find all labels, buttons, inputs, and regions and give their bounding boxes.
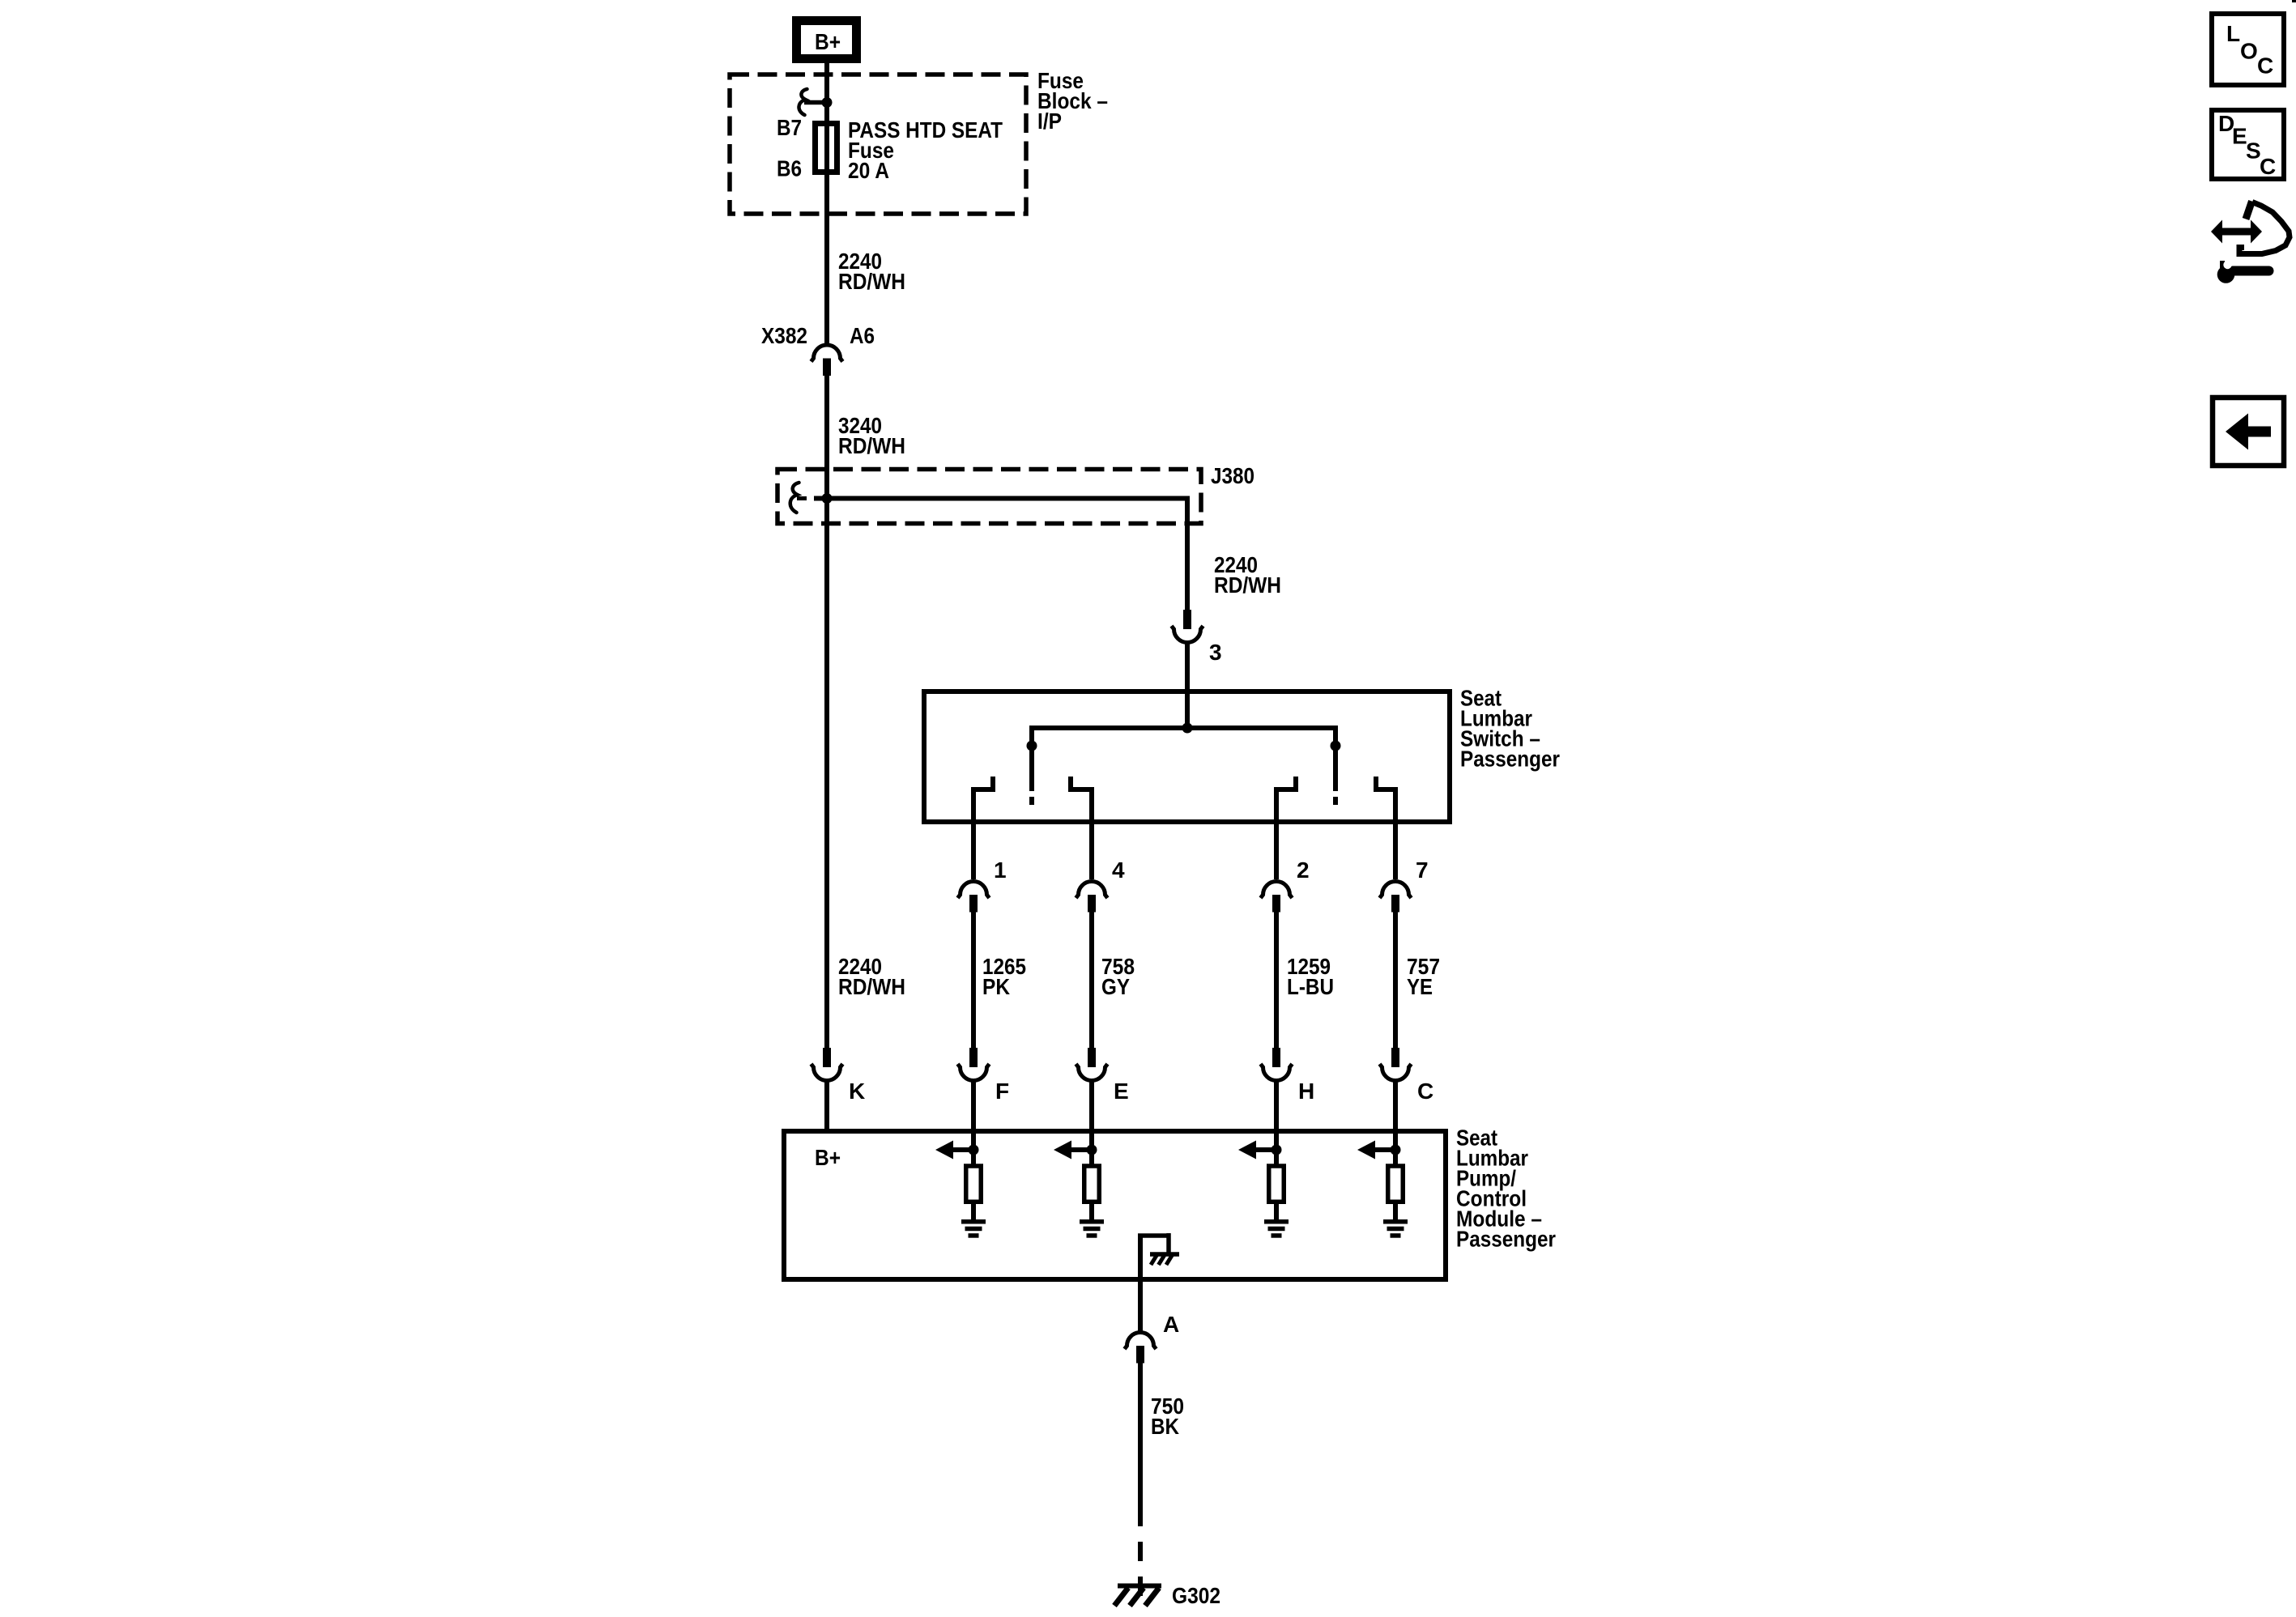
svg-text:B+: B+ — [815, 1145, 841, 1170]
junction node switch common — [1182, 723, 1193, 734]
svg-text:K: K — [849, 1079, 865, 1104]
motor drive arrow H (points left) — [1254, 1147, 1276, 1152]
svg-text:Passenger: Passenger — [1460, 747, 1560, 772]
svg-text:F: F — [995, 1079, 1009, 1104]
ground symbol under resistor H — [1264, 1219, 1289, 1224]
splice stub — [797, 496, 807, 500]
wire J380 branch to switch, circuit 2240 RD/WH — [814, 496, 1187, 501]
connector pin 1 of switch — [958, 882, 990, 899]
switch throw contact pin 7 — [1374, 777, 1378, 792]
chassis ground symbol inside module — [1150, 1252, 1179, 1257]
wire pin into module branch F — [971, 1082, 976, 1150]
svg-text:Passenger: Passenger — [1456, 1227, 1556, 1252]
svg-text:C: C — [2260, 154, 2276, 179]
svg-text:RD/WH: RD/WH — [1214, 572, 1281, 598]
resistor C — [1388, 1166, 1404, 1202]
seat lumbar pump control module passenger box — [784, 1131, 1446, 1279]
svg-text:1: 1 — [994, 857, 1007, 883]
svg-text:B6: B6 — [777, 156, 802, 181]
svg-text:O: O — [2240, 39, 2258, 64]
junction node branch C — [1391, 1145, 1401, 1155]
LOC legend box — [2212, 14, 2284, 85]
switch common bus wire — [1032, 726, 1335, 730]
svg-text:C: C — [2257, 53, 2273, 79]
svg-text:RD/WH: RD/WH — [838, 974, 905, 999]
wire to resistor H — [1274, 1150, 1279, 1167]
ground G302 — [1118, 1584, 1161, 1589]
svg-text:RD/WH: RD/WH — [838, 269, 905, 294]
wire pin 7 circuit 757 YE — [1393, 911, 1398, 1049]
connector pin H of pump module — [1272, 1048, 1280, 1067]
service icon: wrench — [2217, 266, 2235, 283]
wire X382 to splice J380, circuit 3240 RD/WH — [824, 374, 829, 1049]
bus tap curl at fuse feed — [799, 89, 807, 115]
svg-text:E: E — [2232, 124, 2247, 149]
service icon: double arrow — [2211, 220, 2262, 244]
svg-text:H: H — [1298, 1079, 1314, 1104]
wire resistor E to ground — [1089, 1202, 1094, 1220]
switch throw contact pin 4 — [1068, 777, 1073, 792]
splice curl J380 — [790, 483, 799, 513]
svg-text:YE: YE — [1407, 974, 1433, 999]
wire to resistor F — [971, 1150, 976, 1167]
svg-text:20 A: 20 A — [848, 158, 889, 183]
svg-text:BK: BK — [1151, 1414, 1179, 1439]
page corner tick — [2292, 0, 2296, 2]
svg-text:B7: B7 — [777, 115, 802, 140]
wire module pin A — [1138, 1279, 1143, 1331]
svg-text:X382: X382 — [761, 323, 807, 348]
connector pin K of pump module — [823, 1048, 831, 1067]
svg-text:J380: J380 — [1211, 463, 1254, 488]
connector pin 3 of switch — [1183, 610, 1191, 629]
svg-text:I/P: I/P — [1037, 109, 1062, 134]
svg-text:G302: G302 — [1172, 1583, 1220, 1608]
module internal ground wire — [1138, 1236, 1143, 1279]
connector pin 7 of switch — [1380, 882, 1412, 899]
wire pin into module branch H — [1274, 1082, 1279, 1150]
ground symbol under resistor E — [1080, 1219, 1104, 1224]
svg-text:B+: B+ — [815, 29, 841, 54]
junction node branch F — [969, 1145, 979, 1155]
svg-text:A: A — [1163, 1312, 1179, 1337]
switch throw contact pin 1 — [990, 777, 995, 792]
motor drive arrow F (points left) — [951, 1147, 973, 1152]
svg-text:A6: A6 — [850, 323, 875, 348]
right switch pole — [1333, 726, 1338, 791]
junction node branch E — [1087, 1145, 1097, 1155]
wire resistor H to ground — [1274, 1202, 1279, 1220]
dashed wire to ground G302 — [1138, 1507, 1143, 1602]
wire resistor C to ground — [1393, 1202, 1398, 1220]
wire to resistor E — [1089, 1150, 1094, 1167]
connector pin E of pump module — [1088, 1048, 1096, 1067]
wire B+ to fuse — [824, 60, 829, 344]
fuse PASS HTD SEAT 20 A — [816, 124, 837, 172]
resistor E — [1084, 1166, 1100, 1202]
inline connector X382 pin A6 — [811, 345, 843, 362]
resistor F — [966, 1166, 982, 1202]
connector pin F of pump module — [969, 1048, 978, 1067]
svg-text:GY: GY — [1101, 974, 1130, 999]
wire pin into module branch C — [1393, 1082, 1398, 1150]
svg-text:7: 7 — [1416, 857, 1429, 883]
connector pin A of pump module — [1125, 1333, 1157, 1350]
svg-text:E: E — [1114, 1079, 1129, 1104]
connector pin 2 of switch — [1261, 882, 1293, 899]
motor drive arrow E (points left) — [1069, 1147, 1092, 1152]
svg-text:C: C — [1417, 1079, 1433, 1104]
connector pin 4 of switch — [1076, 882, 1108, 899]
seat lumbar switch passenger box — [924, 691, 1450, 822]
wire pin K into module — [824, 1082, 829, 1134]
wire pin 3 into switch — [1185, 643, 1190, 728]
svg-text:RD/WH: RD/WH — [838, 433, 905, 458]
svg-text:PK: PK — [982, 974, 1010, 999]
fuse block I/P dashed box — [730, 74, 1026, 214]
junction node at fuse feed — [822, 97, 833, 108]
wire pin into module branch E — [1089, 1082, 1094, 1150]
svg-text:L-BU: L-BU — [1287, 974, 1334, 999]
wire pin 1 circuit 1265 PK — [971, 911, 976, 1049]
ground symbol under resistor C — [1383, 1219, 1408, 1224]
DESC legend box — [2212, 110, 2284, 179]
junction node at J380 — [822, 493, 833, 504]
wire to resistor C — [1393, 1150, 1398, 1167]
back arrow legend box — [2213, 398, 2284, 466]
svg-text:3: 3 — [1209, 640, 1222, 665]
svg-text:S: S — [2246, 138, 2261, 164]
wire pin A circuit 750 BK — [1138, 1362, 1143, 1507]
splice pack J380 dashed box — [777, 470, 1201, 524]
power feed terminal B+ — [797, 21, 857, 59]
svg-text:2: 2 — [1297, 857, 1310, 883]
wire pin 2 circuit 1259 L-BU — [1274, 911, 1279, 1049]
switch throw contact pin 2 — [1293, 777, 1298, 792]
service icon: part outline — [2246, 202, 2252, 219]
connector pin C of pump module — [1391, 1048, 1399, 1067]
svg-text:4: 4 — [1112, 857, 1125, 883]
junction node branch H — [1272, 1145, 1282, 1155]
left switch pole — [1029, 726, 1034, 791]
resistor H — [1269, 1166, 1284, 1202]
wire pin 4 circuit 758 GY — [1089, 911, 1094, 1049]
tap stub wire — [804, 100, 827, 105]
ground symbol under resistor F — [961, 1219, 986, 1224]
wire resistor F to ground — [971, 1202, 976, 1220]
motor drive arrow C (points left) — [1373, 1147, 1395, 1152]
svg-text:L: L — [2226, 21, 2240, 46]
